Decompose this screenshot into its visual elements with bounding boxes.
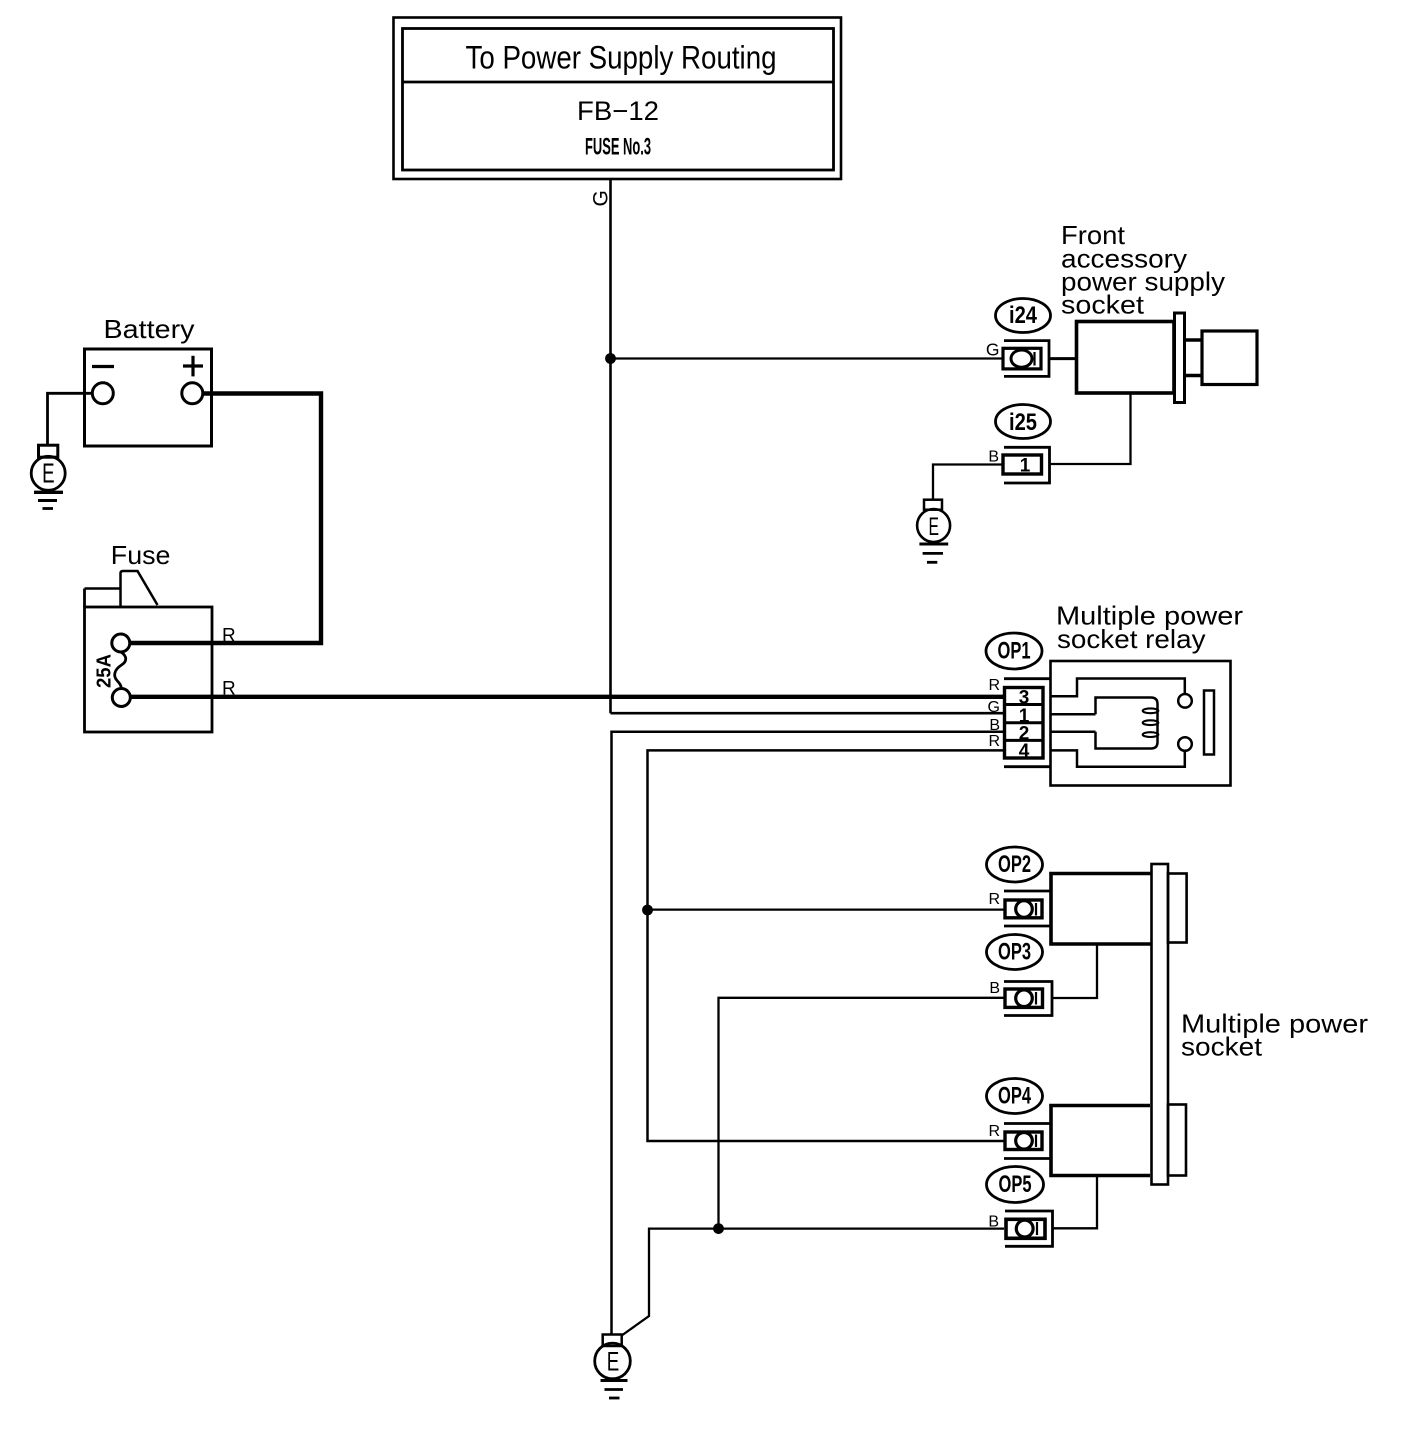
svg-text:B: B: [989, 717, 1000, 734]
svg-text:Battery: Battery: [104, 314, 195, 344]
svg-text:OP1: OP1: [998, 638, 1031, 665]
svg-text:25A: 25A: [94, 654, 116, 688]
svg-text:OP2: OP2: [998, 851, 1031, 878]
svg-text:E: E: [929, 513, 940, 541]
svg-text:R: R: [988, 733, 1000, 750]
svg-text:FUSE No.3: FUSE No.3: [585, 134, 651, 161]
svg-text:E: E: [42, 458, 55, 489]
svg-text:OP5: OP5: [999, 1171, 1032, 1198]
svg-text:R: R: [988, 891, 1000, 908]
svg-text:B: B: [988, 1214, 999, 1231]
svg-text:Fuse: Fuse: [111, 540, 171, 570]
svg-text:i25: i25: [1009, 409, 1037, 436]
svg-text:G: G: [986, 340, 1000, 360]
svg-text:R: R: [222, 679, 236, 700]
svg-text:1: 1: [1020, 456, 1031, 477]
svg-text:4: 4: [1019, 741, 1030, 762]
svg-text:socket: socket: [1181, 1032, 1263, 1062]
svg-text:R: R: [988, 677, 1000, 694]
svg-text:socket relay: socket relay: [1057, 624, 1206, 654]
svg-text:B: B: [989, 980, 1000, 997]
svg-text:To Power Supply Routing: To Power Supply Routing: [466, 39, 777, 75]
svg-text:i24: i24: [1009, 302, 1038, 329]
svg-text:G: G: [590, 190, 613, 206]
svg-text:socket: socket: [1061, 290, 1145, 320]
svg-text:E: E: [607, 1347, 620, 1377]
svg-text:B: B: [988, 449, 999, 466]
svg-text:OP3: OP3: [998, 939, 1031, 966]
svg-text:R: R: [988, 1123, 1000, 1140]
svg-text:R: R: [222, 626, 236, 647]
svg-text:FB−12: FB−12: [577, 96, 659, 126]
svg-text:G: G: [988, 699, 1000, 716]
svg-text:OP4: OP4: [998, 1083, 1031, 1110]
